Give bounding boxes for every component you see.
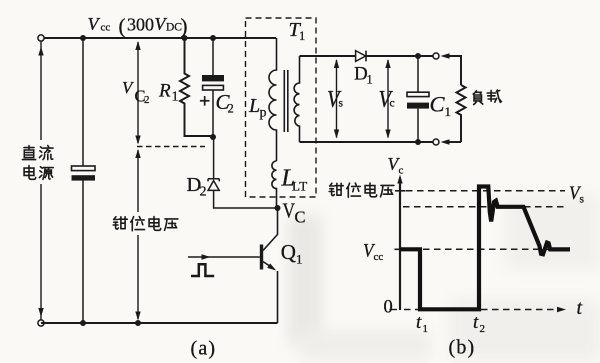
label Q1 (281, 240, 303, 267)
label T1 (289, 19, 306, 43)
svg-text:t: t (577, 297, 583, 319)
wire bottom rail (41, 322, 278, 324)
terminal circle output top (433, 53, 439, 59)
diode D2 (208, 137, 278, 208)
label 钳位电压 clamp voltage (circuit) (113, 217, 178, 231)
svg-text:0: 0 (384, 298, 393, 318)
wire secondary bottom (300, 141, 434, 143)
wire DC source arrow left branch (38, 42, 43, 321)
inductor Lp primary winding (269, 38, 277, 161)
svg-text:): ) (181, 14, 188, 38)
svg-text:1: 1 (423, 323, 429, 335)
capacitor C2 (202, 38, 224, 137)
axis y Vc (397, 175, 402, 311)
tick clamp level (395, 190, 406, 192)
label L_LT (281, 166, 308, 194)
svg-text:c: c (399, 165, 404, 177)
wire load top with arrow (441, 53, 462, 85)
svg-text:(: ( (119, 14, 126, 38)
transformer core (284, 70, 288, 132)
svg-text:1: 1 (296, 252, 303, 267)
svg-text:2: 2 (228, 102, 234, 116)
svg-text:+: + (199, 91, 210, 113)
svg-text:300: 300 (127, 15, 154, 35)
svg-text:t: t (416, 312, 422, 333)
svg-text:(b): (b) (449, 337, 476, 359)
wire load bottom with arrow (441, 139, 462, 144)
terminal circle bottom-left (38, 320, 44, 326)
label Vcc (300VDC) (88, 14, 188, 38)
svg-text:c: c (390, 98, 395, 110)
inductor L_LT leakage winding (272, 161, 277, 208)
label 负载 load (473, 90, 501, 104)
label t2 (473, 312, 485, 335)
node junction top rail at DC cap (80, 35, 86, 41)
dashed level line clamp/Vs (406, 190, 565, 192)
capacitor C1 (407, 56, 429, 142)
transistor Q1 (188, 208, 278, 323)
svg-text:s: s (580, 194, 585, 206)
node junction top at C1 (415, 53, 421, 59)
svg-text:C: C (295, 208, 306, 227)
svg-text:R: R (158, 81, 171, 102)
node VC junction (275, 205, 281, 211)
node junction bottom at C1 (415, 139, 421, 145)
svg-text:t: t (473, 312, 479, 333)
label C1 (430, 92, 452, 120)
transformer T1 dashed box (246, 18, 317, 197)
svg-text:(a): (a) (191, 338, 217, 360)
label Vc axis (388, 154, 404, 177)
label Vcc left (363, 241, 383, 264)
node junction bottom rail at clamp arrow (135, 320, 141, 326)
node junction R1-C2-D2 (210, 134, 216, 140)
svg-text:2: 2 (480, 323, 486, 335)
node junction top rail at R1 (182, 35, 188, 41)
svg-text:cc: cc (101, 22, 111, 34)
svg-text:1: 1 (172, 90, 179, 105)
label VC node (283, 199, 306, 227)
dashed level line secondary (403, 206, 565, 208)
svg-text:p: p (260, 106, 267, 121)
svg-text:C: C (430, 92, 446, 117)
resistor load 负载 (457, 85, 466, 142)
label Lp (248, 95, 267, 121)
voltage arrow Vs (334, 59, 339, 139)
svg-text:V: V (283, 199, 296, 223)
svg-text:L: L (248, 95, 260, 117)
capacitor DC bus (unlabeled) (72, 38, 96, 323)
tick Vcc level (395, 248, 401, 250)
label Vc (379, 87, 395, 113)
voltage arrow clamp 钳位电压 (135, 149, 140, 321)
svg-text:1: 1 (299, 29, 305, 43)
dashed boundary line clamp level (137, 146, 205, 148)
node junction top rail at C2 (210, 35, 216, 41)
label C2 (216, 90, 234, 116)
node junction bottom rail at DC cap (80, 320, 86, 326)
diode D1 (356, 51, 366, 62)
label Vs right (569, 183, 585, 206)
inductor secondary winding (294, 56, 299, 142)
label t1 (416, 312, 428, 335)
voltage arrow Vc (385, 59, 390, 139)
svg-text:1: 1 (367, 73, 373, 87)
waveform Vc trace (400, 187, 570, 310)
dashed level line Vcc (423, 248, 562, 250)
wire top rail (41, 37, 276, 39)
label 直流电源 DC source (22, 146, 53, 180)
terminal circle top-left (38, 35, 44, 41)
svg-text:s: s (339, 98, 344, 110)
svg-text:cc: cc (374, 251, 384, 263)
svg-text:Q: Q (281, 240, 296, 264)
label R1 (158, 81, 179, 105)
label D1 (354, 64, 373, 87)
label 钳位电压 clamp voltage (plot) (329, 183, 394, 197)
svg-text:LT: LT (292, 179, 308, 194)
label Vs (327, 87, 344, 113)
terminal circle output bottom (433, 139, 439, 145)
voltage arrow VC2 (135, 41, 140, 145)
label D2 (187, 174, 207, 200)
svg-text:2: 2 (200, 185, 207, 200)
resistor R1 (180, 38, 213, 136)
label VC2 (122, 78, 150, 106)
wire secondary top (300, 55, 434, 57)
svg-text:1: 1 (445, 104, 452, 119)
svg-text:2: 2 (144, 94, 150, 106)
axis x dashed with arrow (390, 307, 567, 312)
pulse input symbol (191, 264, 214, 276)
